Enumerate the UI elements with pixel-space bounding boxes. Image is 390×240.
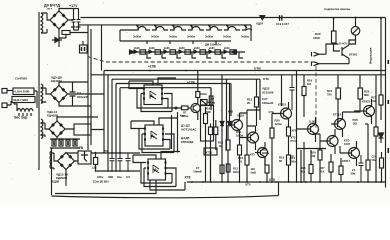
wire D1 loop under: [137, 89, 172, 112]
secondary winding W2: [41, 84, 43, 104]
wire D2 loop: [139, 129, 174, 153]
wire lamp: [349, 18, 356, 45]
svg-text:1кОм: 1кОм: [275, 122, 282, 126]
svg-text:ХТ8: ХТ8: [185, 176, 191, 180]
wire bottom return line: [52, 182, 279, 198]
resistor R3: [59, 140, 63, 146]
svg-text:КЛ5: КЛ5: [228, 110, 234, 114]
resistor R26: [374, 127, 378, 136]
wire row1 bottom bus: [120, 40, 231, 42]
svg-text:30м: 30м: [351, 172, 356, 176]
svg-text:2к33: 2к33: [164, 46, 170, 50]
dashed vertical indicator box: [315, 66, 317, 130]
bridge VD14-VD17: [58, 153, 75, 170]
scan noise: [126, 32, 127, 33]
transistor VT9: [349, 148, 360, 159]
svg-text:1М: 1М: [307, 82, 312, 86]
wire R16 column: [288, 126, 290, 182]
wire nest L2 left stub: [91, 74, 109, 76]
svg-text:R13: R13: [233, 167, 238, 171]
svg-text:1К2: 1К2: [353, 122, 358, 126]
svg-text:КД3В: КД3В: [52, 180, 59, 184]
svg-text:КЦ402В: КЦ402В: [47, 114, 59, 118]
transistor VT7: [335, 119, 346, 130]
wire R10 column: [227, 125, 229, 182]
wire left vertical from bridge1: [88, 25, 91, 150]
resistor R29: [332, 31, 337, 43]
resistor R12: [245, 155, 249, 165]
svg-text:КЦ402А: КЦ402А: [51, 79, 63, 83]
optocoupler D2 pins: [144, 129, 164, 140]
wire R14 column: [265, 157, 267, 182]
svg-text:КТ5: КТ5: [250, 153, 255, 157]
resistor R23: [358, 88, 363, 99]
svg-text:10К: 10К: [371, 99, 376, 103]
wire D2 top: [131, 118, 178, 129]
svg-text:82От: 82От: [233, 170, 240, 174]
resistor R2: [52, 140, 56, 146]
diode group row2 g4: [179, 46, 196, 58]
svg-text:Индикация: Индикация: [369, 47, 373, 64]
resistor R22: [329, 162, 333, 172]
terminal X2: [2, 103, 7, 108]
wire R29: [334, 18, 341, 51]
svg-text:КТ315: КТ315: [278, 103, 287, 107]
svg-text:ХТ7В: ХТ7В: [206, 151, 213, 155]
connector box XT7: [204, 148, 217, 155]
wire IC1 to R7h: [163, 107, 182, 109]
svg-text:Р6П: Р6П: [353, 118, 358, 122]
wire W3 to bridge3: [41, 123, 49, 137]
wire row1 left: [120, 30, 134, 41]
svg-text:КТО: КТО: [344, 139, 349, 143]
wire IC2 right risers: [172, 112, 178, 153]
svg-text:82Ом: 82Ом: [262, 151, 269, 155]
wire nested L2: [108, 75, 386, 171]
diodes of bridge2: [53, 88, 57, 92]
lamp HL1: [351, 27, 360, 36]
transistor VT8: [327, 136, 338, 147]
resistor R8b column: [209, 96, 213, 105]
transistor VT5: [281, 108, 292, 119]
svg-text:50мкФ: 50мкФ: [194, 170, 203, 174]
wire X1 to fuse: [7, 90, 13, 92]
svg-text:82: 82: [279, 159, 283, 163]
capacitor C12 column: [220, 165, 224, 174]
wire D3 top: [133, 152, 180, 163]
svg-text:100К: 100К: [205, 110, 212, 114]
resistor R32 left pair a: [209, 127, 213, 135]
wire D3 bottom loop: [55, 180, 185, 194]
svg-text:Д₂: Д₂: [151, 134, 156, 138]
resistor R10: [226, 140, 230, 150]
wire R8 column: [206, 88, 212, 182]
wire nested L3: [112, 79, 260, 152]
svg-text:КТ825: КТ825: [362, 100, 371, 104]
svg-text:Sвс Sвр: Sвс Sвр: [14, 116, 28, 120]
diode group row2 g6: [209, 46, 226, 58]
capacitor C3: [70, 82, 76, 106]
svg-text:Л-4СЧ: Л-4СЧ: [339, 42, 347, 46]
wire W2 to bridge2: [41, 88, 51, 103]
resistor R7h: [182, 106, 189, 110]
svg-text:3ч50м: 3ч50м: [187, 35, 195, 39]
svg-text:зв ч: зв ч: [47, 8, 53, 11]
row2 right connector arrow: [232, 50, 237, 54]
svg-text:К553УД2: К553УД2: [181, 140, 194, 144]
wire right links: [365, 99, 372, 124]
svg-text:750: 750: [327, 93, 332, 97]
svg-text:3ч50м: 3ч50м: [169, 35, 177, 39]
thyristor row symbol 1: [134, 25, 150, 30]
optocoupler D2: [145, 125, 163, 146]
svg-text:0,5: 0,5: [126, 175, 130, 179]
resistor R8: [204, 114, 208, 124]
svg-text:1,5К: 1,5К: [92, 166, 98, 170]
svg-text:3ч50м: 3ч50м: [151, 35, 159, 39]
transformer core: [38, 12, 40, 170]
wire top enclosure: [79, 25, 251, 71]
resistor R33 left pair b: [214, 127, 218, 135]
wire top +17V bus: [81, 17, 386, 19]
resistor R6: [94, 158, 98, 165]
wire D1 top: [129, 78, 176, 89]
wire R15 column: [271, 120, 273, 182]
resistor R10 lower: [226, 164, 230, 172]
diode VD26 right column: [379, 133, 384, 143]
right edge dashes: [388, 100, 390, 104]
thyristor row symbol 3: [170, 25, 186, 30]
capacitor C11: [290, 75, 295, 110]
wire base links: [228, 111, 360, 153]
svg-text:0,25А 250В: 0,25А 250В: [15, 90, 30, 94]
svg-text:1КОм: 1КОм: [200, 92, 207, 96]
svg-text:ХТ3: ХТ3: [291, 136, 296, 140]
svg-text:КТ361: КТ361: [349, 53, 358, 57]
relay contact box K1: [201, 100, 208, 106]
svg-text:1Ом 3В 6Вт: 1Ом 3В 6Вт: [93, 180, 109, 184]
svg-text:ПР: ПР: [290, 155, 294, 159]
wire collector bus c1: [240, 110, 261, 126]
resistor R16: [287, 155, 291, 165]
wire R11 column: [239, 138, 241, 182]
resistor R18: [309, 165, 313, 174]
resistor R11: [238, 145, 242, 155]
svg-text:10Ом: 10Ом: [236, 134, 243, 138]
svg-text:3ч50м: 3ч50м: [205, 35, 213, 39]
top bus capacitor C19: [280, 15, 282, 20]
thyristor row symbol 5: [206, 25, 222, 30]
svg-text:КТ817: КТ817: [342, 159, 351, 163]
svg-text:100мкФ: 100мкФ: [262, 101, 274, 105]
resistor R30 border: [380, 158, 384, 168]
resistor R34 below VT5: [287, 127, 291, 136]
svg-text:10К: 10К: [311, 154, 316, 158]
svg-text:100У: 100У: [344, 142, 350, 146]
resistor R20: [318, 150, 322, 160]
svg-text:R1Б: R1Б: [262, 148, 267, 152]
svg-text:9,1КВ: 9,1КВ: [309, 120, 317, 124]
wire bridge1 out: [59, 9, 79, 48]
wire R13 column: [256, 79, 258, 126]
optocoupler D3 pins: [147, 163, 167, 174]
diode VD20: [220, 122, 224, 126]
wire bottom common bus: [187, 181, 385, 183]
svg-text:82К: 82К: [364, 93, 369, 97]
capacitor C23: [359, 155, 364, 182]
wire R20 column: [319, 134, 321, 182]
wire nested L4: [116, 84, 231, 172]
svg-text:220мкФ: 220мкФ: [77, 95, 88, 99]
capacitor C4 box: [74, 124, 91, 135]
svg-text:2С156Ф: 2С156Ф: [262, 91, 274, 95]
svg-text:51: 51: [239, 160, 243, 164]
wire W1 to bridge1: [41, 13, 50, 33]
wire D3 loop: [141, 163, 176, 187]
junction dots top bus: [333, 17, 335, 19]
stabilizer box A1: [78, 151, 91, 164]
svg-text:+17В: +17В: [187, 81, 195, 85]
svg-text:НОм: НОм: [97, 175, 103, 179]
svg-text:2к33: 2к33: [149, 46, 155, 50]
svg-text:КТ315: КТ315: [333, 113, 342, 117]
svg-text:82: 82: [219, 144, 223, 148]
wire R9 column: [222, 75, 230, 182]
svg-text:3ч50м: 3ч50м: [133, 35, 141, 39]
thyristor row symbol 2: [152, 25, 168, 30]
relay K1 coil box: [80, 45, 88, 53]
resistor R19: [302, 87, 306, 96]
optocoupler D3: [148, 159, 166, 180]
diode group row2 g2: [149, 46, 166, 58]
wire R21 column: [337, 75, 339, 124]
svg-text:51К: 51К: [320, 170, 325, 174]
wire R1: [59, 33, 88, 39]
svg-text:33В: 33В: [108, 175, 113, 179]
row1 hump ticks: [138, 25, 246, 30]
resistor R13: [255, 97, 259, 107]
diode VD5: [52, 38, 62, 43]
row2 bus: [133, 51, 245, 53]
transistor VT3: [248, 132, 259, 143]
wire R12 column: [246, 110, 248, 182]
row1 to row2 ticks: [147, 41, 216, 44]
svg-text:VД24: VД24: [256, 22, 263, 26]
resistor R27: [379, 95, 383, 105]
wire bridge4 out: [66, 153, 78, 187]
transistor VT6: [308, 124, 319, 135]
capacitor C2: [77, 11, 81, 31]
wire +7V rail: [91, 153, 140, 171]
thyristor row symbol 4: [188, 25, 204, 30]
diodes of bridge3: [51, 123, 55, 127]
svg-text:3ч50м: 3ч50м: [223, 35, 231, 39]
transistor VT11: [364, 106, 375, 117]
wire R25 column: [367, 124, 369, 182]
resistor R21: [336, 88, 341, 99]
svg-text:РУЧ: РУЧ: [291, 139, 296, 143]
fuse FU1 box: [13, 88, 34, 95]
svg-text:VД19: VД19: [237, 114, 244, 118]
optocoupler D1 pins: [143, 89, 163, 99]
transistor VT1: [191, 103, 200, 112]
resistor R4c collector: [196, 92, 200, 98]
svg-text:1кв: 1кв: [211, 101, 216, 105]
svg-text:+17V: +17V: [69, 4, 78, 8]
bridge VD10-VD13: [49, 121, 65, 137]
wire X2 to switch: [7, 101, 11, 105]
wire fuse to primary: [14, 91, 37, 111]
resistor R1: [62, 31, 70, 35]
svg-text:2к33: 2к33: [134, 46, 140, 50]
svg-text:подсветка шкалы: подсветка шкалы: [324, 7, 351, 11]
svg-text:+7В: +7В: [77, 146, 84, 150]
wire W4 to bridge4: [51, 153, 58, 170]
svg-text:2к33: 2к33: [194, 46, 200, 50]
arrow connector P2: [312, 59, 350, 66]
svg-text:+17В: +17В: [148, 65, 156, 69]
svg-text:ДМ 100мкГн: ДМ 100мкГн: [205, 43, 221, 47]
resistor R5: [73, 140, 77, 146]
wire nested L1: [104, 71, 386, 183]
left enclosure: [51, 148, 53, 196]
wire R19 column: [303, 75, 305, 182]
wire R7h to VT1: [188, 107, 191, 109]
row2 left connector arrow: [130, 50, 135, 54]
top bus diode VD24: [260, 16, 266, 21]
resistor R25: [366, 160, 370, 170]
transistor VT4: [258, 148, 268, 158]
bridge VD6-VD9: [51, 86, 68, 103]
junction dots +7V rail: [95, 152, 97, 154]
svg-text:91к: 91к: [301, 170, 306, 174]
optocoupler D1: [144, 85, 162, 105]
svg-text:САЧГ80У: САЧГ80У: [15, 77, 27, 81]
svg-text:АОТ101АС: АОТ101АС: [181, 128, 197, 132]
svg-text:С19 0,047: С19 0,047: [276, 22, 289, 26]
svg-text:3ч50м: 3ч50м: [241, 35, 249, 39]
wire right border bus: [385, 18, 387, 188]
svg-text:10Вт: 10Вт: [290, 160, 297, 164]
svg-text:2ль: 2ль: [117, 175, 122, 179]
svg-text:2к33: 2к33: [224, 46, 230, 50]
resistor R24: [339, 166, 343, 175]
wire R22 column: [330, 154, 332, 182]
thyristor row symbol 7: [242, 25, 252, 30]
transistor VT10: [342, 40, 356, 60]
transistor VT2: [232, 120, 243, 131]
junction dots bottom bus: [191, 181, 193, 183]
capacitor C8: [126, 153, 131, 171]
switch SA1 box: [12, 97, 35, 103]
resistor R4: [66, 140, 70, 146]
wire VT8 row: [297, 148, 327, 150]
wire R27 column: [380, 18, 382, 120]
resistor R15: [270, 128, 274, 138]
svg-text:100К: 100К: [313, 36, 320, 40]
diode group row2 g5: [194, 46, 211, 58]
svg-text:С7Б: С7Б: [269, 110, 274, 114]
svg-text:Д₁: Д₁: [150, 94, 155, 98]
capacitor C6: [110, 153, 115, 171]
wire bridge3 out: [57, 117, 104, 139]
wire R23 column: [343, 75, 361, 112]
secondary winding W3: [41, 119, 43, 139]
svg-text:ХТ5: ХТ5: [245, 183, 251, 187]
terminal X1: [2, 89, 7, 94]
dashed separation line: [88, 57, 318, 63]
svg-text:ХГ8: ХГ8: [292, 130, 297, 133]
svg-text:СТ: СТ: [196, 166, 200, 170]
svg-text:2к33: 2к33: [179, 46, 185, 50]
secondary winding W1: [41, 13, 43, 33]
diode VD21: [228, 122, 232, 126]
arrow connector P1: [312, 44, 339, 56]
svg-text:ВН3-7 М03: ВН3-7 М03: [14, 98, 29, 102]
primary winding T1: [17, 109, 33, 117]
svg-text:5мВ: 5мВ: [251, 171, 256, 175]
capacitor C1 C2 joint: [71, 27, 81, 30]
wire left pair: [211, 120, 216, 182]
svg-text:ОТК: ОТК: [263, 77, 269, 81]
capacitor C7: [118, 153, 123, 171]
capacitor C1: [72, 11, 76, 31]
diode group row2 g7: [224, 46, 243, 58]
wire R18 column: [301, 150, 311, 182]
wire resistor row: [50, 139, 80, 148]
resistor R14: [265, 165, 269, 173]
wire R26 column: [375, 75, 377, 182]
svg-text:2К: 2К: [247, 101, 251, 105]
thyristor row symbol 6: [224, 25, 240, 30]
svg-text:Д₃: Д₃: [154, 168, 159, 172]
secondary winding W4: [50, 151, 51, 169]
diodes of bridge4: [60, 155, 64, 159]
wire bridge2 to nest: [68, 93, 105, 95]
svg-text:ОТМ: ОТМ: [254, 67, 261, 71]
wire bridge2 out top: [59, 82, 91, 106]
svg-text:1Вт: 1Вт: [251, 167, 256, 171]
diode group row2 g3: [164, 46, 181, 58]
diodes of bridge1: [53, 14, 57, 18]
diode group row2 g1: [134, 46, 151, 58]
box around left resistor column: [201, 106, 214, 142]
wire nested L5: [120, 88, 211, 153]
svg-text:Квт: Квт: [180, 114, 185, 118]
bridge VD1-VD4: [50, 11, 68, 29]
